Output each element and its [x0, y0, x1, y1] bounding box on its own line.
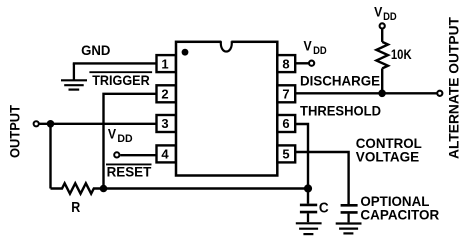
svg-text:10K: 10K — [391, 46, 412, 62]
node capacitor junction — [304, 184, 312, 192]
svg-text:8: 8 — [282, 56, 289, 71]
svg-text:DISCHARGE: DISCHARGE — [300, 73, 380, 89]
svg-text:DD: DD — [383, 11, 397, 23]
svg-text:RESET: RESET — [107, 163, 152, 179]
pin 8 — [277, 55, 295, 72]
wire pin2 to trigger node — [104, 94, 157, 189]
svg-text:1: 1 — [161, 56, 168, 71]
resistor R — [51, 183, 104, 193]
pin 7 — [277, 85, 295, 102]
terminal reset VDD open circle — [114, 152, 119, 157]
pin 3 — [157, 115, 176, 132]
wire VDD terminal to resistor 10K — [381, 29, 383, 42]
svg-text:OUTPUT: OUTPUT — [7, 105, 23, 158]
wire output junction down to resistor — [49, 124, 51, 189]
node RC junction — [100, 185, 108, 193]
wire output terminal to pin3 — [39, 123, 156, 125]
svg-text:CAPACITOR: CAPACITOR — [360, 206, 439, 222]
svg-text:7: 7 — [282, 87, 289, 102]
svg-text:3: 3 — [161, 116, 168, 131]
wire pin1 to ground — [73, 62, 157, 64]
wire reset terminal to pin4 — [120, 154, 156, 156]
svg-text:6: 6 — [282, 116, 289, 131]
capacitor C — [300, 189, 317, 223]
svg-text:TRIGGER: TRIGGER — [92, 72, 150, 88]
node output junction — [47, 120, 55, 128]
svg-text:ALTERNATE OUTPUT: ALTERNATE OUTPUT — [446, 17, 462, 159]
label CONTROL VOLTAGE — [356, 135, 422, 165]
pin 4 — [157, 145, 176, 162]
wire pin8 to VDD terminal — [295, 62, 309, 64]
resistor 10K — [376, 42, 388, 69]
ground GND3 bars — [336, 224, 362, 234]
svg-text:DD: DD — [313, 45, 327, 57]
svg-text:V: V — [108, 125, 117, 141]
terminal VDD top open circle — [380, 23, 385, 28]
svg-text:V: V — [304, 37, 313, 53]
ground GND1 bars — [61, 80, 87, 89]
capacitor optional — [341, 205, 358, 222]
svg-text:5: 5 — [282, 147, 289, 162]
wire pin7 discharge line — [295, 92, 437, 94]
svg-text:THRESHOLD: THRESHOLD — [300, 103, 381, 119]
label OPTIONAL CAPACITOR — [360, 193, 439, 222]
pin 1 — [157, 55, 176, 72]
svg-text:DD: DD — [117, 133, 132, 145]
svg-text:R: R — [71, 200, 80, 216]
terminal alternate output open circle — [437, 91, 442, 96]
svg-text:4: 4 — [161, 147, 169, 162]
svg-text:GND: GND — [81, 42, 110, 58]
pin 6 — [277, 115, 295, 132]
svg-text:V: V — [374, 3, 383, 19]
wire RC junction to capacitor node — [104, 187, 309, 189]
svg-text:C: C — [319, 200, 329, 216]
wire resistor 10K to discharge line — [381, 68, 383, 93]
op-amp U1 555 timer body — [176, 40, 277, 175]
ground GND2 bars — [296, 223, 322, 234]
svg-text:2: 2 — [161, 87, 168, 102]
pin 5 — [277, 145, 295, 162]
label TRIGGER with overline — [89, 72, 152, 88]
terminal OUTPUT open circle — [34, 121, 39, 126]
wire pin5 control voltage to optional capacitor — [295, 152, 348, 204]
terminal VDD pin8 open circle — [309, 61, 314, 66]
node discharge junction — [378, 90, 386, 98]
pin 2 — [157, 85, 176, 102]
label RESET with overline — [106, 163, 152, 179]
ground GND1 stem — [73, 63, 75, 80]
wire pin6 threshold down to RC node — [295, 124, 308, 189]
svg-text:VOLTAGE: VOLTAGE — [356, 149, 419, 165]
